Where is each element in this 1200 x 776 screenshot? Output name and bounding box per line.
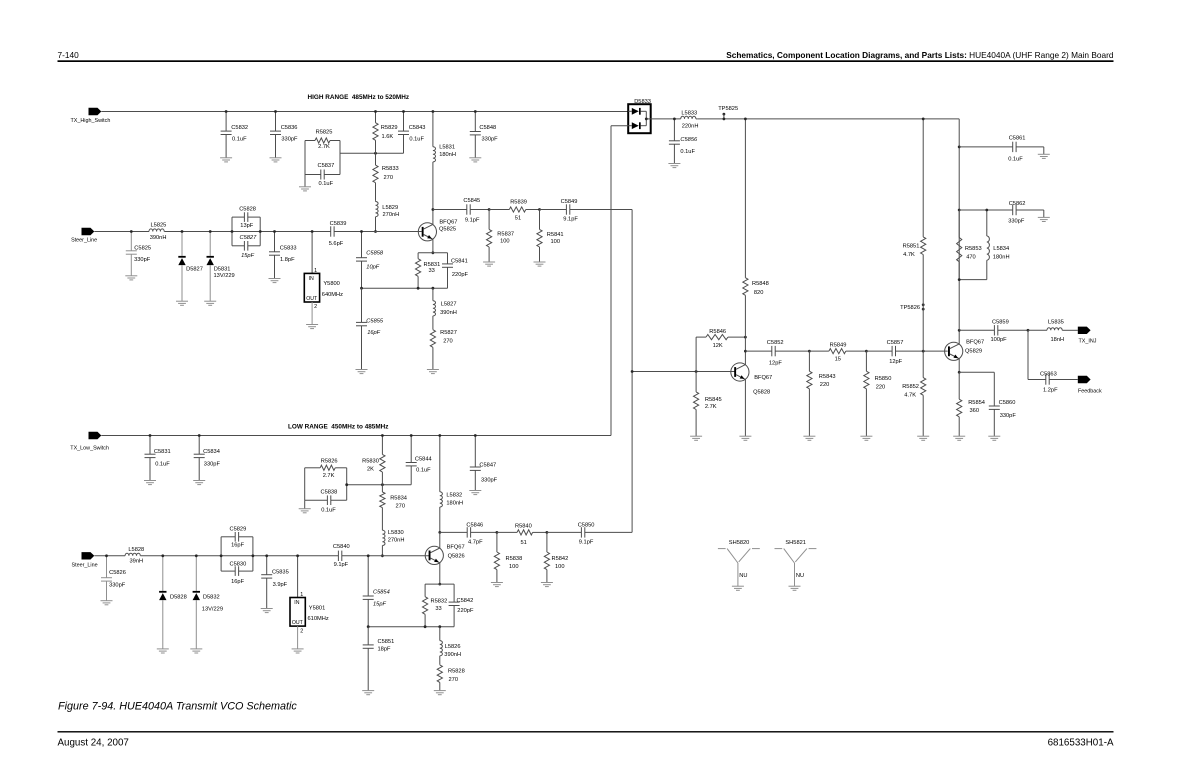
capacitor C5845 [463, 198, 489, 224]
capacitor C5837 [305, 163, 340, 187]
high range title [308, 94, 410, 101]
svg-text:1.6K: 1.6K [382, 134, 394, 140]
varactor D5828 [159, 556, 187, 649]
svg-text:Schematics, Component Location: Schematics, Component Location Diagrams,… [726, 50, 1114, 60]
node C5855 top [360, 287, 363, 290]
wire steer high right [334, 231, 422, 233]
wire Q5826 emitter [439, 563, 441, 584]
svg-text:R5843: R5843 [819, 374, 836, 380]
ground C5848 [469, 158, 481, 162]
ground C5834 [193, 481, 205, 485]
svg-text:R5846: R5846 [709, 329, 726, 335]
svg-text:220pF: 220pF [452, 272, 469, 278]
node R5852 base [922, 350, 925, 353]
node Q5829 emitter [958, 371, 961, 374]
svg-text:330pF: 330pF [109, 582, 126, 588]
capacitor C5829 [221, 527, 253, 556]
svg-text:610MHz: 610MHz [308, 616, 329, 622]
ground C5825 [125, 276, 137, 280]
svg-text:0.1uF: 0.1uF [319, 181, 334, 187]
svg-text:BFQ67: BFQ67 [447, 545, 465, 551]
resistor R5825 [305, 130, 340, 150]
resistor R5839 [489, 200, 539, 222]
ground C5861 [1038, 154, 1050, 158]
svg-text:C5826: C5826 [109, 570, 126, 576]
svg-text:L5832: L5832 [446, 493, 462, 499]
svg-text:Y5801: Y5801 [309, 605, 325, 611]
svg-text:270: 270 [384, 175, 394, 181]
inductor L5825 [149, 223, 166, 241]
svg-text:C5833: C5833 [280, 246, 297, 252]
node R5841 top [538, 208, 541, 211]
inductor L5828 [125, 547, 144, 565]
svg-text:R5828: R5828 [448, 669, 465, 675]
svg-text:330pF: 330pF [204, 462, 221, 468]
svg-text:R5852: R5852 [902, 384, 919, 390]
footer rule [58, 731, 1114, 732]
node C5847 rail [474, 434, 477, 437]
node C5831 rail [149, 434, 152, 437]
svg-text:Q5826: Q5826 [448, 553, 465, 559]
input flag Steer_Line low [72, 552, 98, 568]
svg-text:C5857: C5857 [887, 340, 904, 346]
wire bias box left [304, 141, 306, 187]
svg-text:2: 2 [300, 629, 303, 635]
wire D5833 low input [611, 126, 628, 436]
wire steer low right [342, 555, 429, 557]
svg-text:C5855: C5855 [366, 319, 384, 325]
svg-text:2.7K: 2.7K [705, 404, 717, 410]
svg-text:C5845: C5845 [463, 198, 480, 204]
svg-text:0.1uF: 0.1uF [409, 136, 424, 142]
svg-text:6816533H01-A: 6816533H01-A [1048, 737, 1114, 748]
node Q5826 emitter [438, 583, 441, 586]
wire Q5829 emitter [958, 359, 960, 373]
svg-text:C5856: C5856 [680, 137, 698, 143]
svg-text:9.1pF: 9.1pF [563, 216, 578, 222]
inductor L5834 [959, 210, 1009, 280]
svg-text:C5846: C5846 [466, 523, 483, 529]
node C5859 right [1027, 329, 1030, 332]
node C5843 rail [402, 110, 405, 113]
ground bias box high [299, 187, 311, 191]
svg-text:18nH: 18nH [1051, 337, 1065, 343]
svg-text:R5829: R5829 [381, 125, 398, 131]
transistor Q5825 [418, 219, 457, 241]
wire collector to C5846 [440, 531, 467, 533]
svg-text:4.7K: 4.7K [904, 393, 916, 399]
svg-text:C5832: C5832 [231, 125, 248, 131]
resistor R5854 [957, 372, 985, 436]
svg-text:180nH: 180nH [446, 501, 463, 507]
svg-text:Feedback: Feedback [1078, 388, 1102, 394]
resistor R5851 [903, 119, 926, 304]
svg-text:51: 51 [515, 216, 521, 222]
wire steer high mid [165, 231, 331, 233]
resistor R5834 [380, 485, 407, 530]
svg-text:180nH: 180nH [439, 152, 456, 158]
svg-text:Figure 7-94. HUE4040A Transmit: Figure 7-94. HUE4040A Transmit VCO Schem… [58, 700, 297, 712]
svg-text:100: 100 [555, 564, 565, 570]
wire base junction high [632, 371, 735, 373]
ground C5835 [261, 609, 273, 613]
output flag Feedback [1078, 376, 1102, 395]
capacitor C5851 [363, 627, 395, 691]
svg-text:C5830: C5830 [230, 561, 247, 567]
svg-text:D5832: D5832 [203, 594, 220, 600]
svg-text:TX_INJ: TX_INJ [1079, 338, 1097, 344]
node D5832 steer [195, 554, 198, 557]
svg-text:16pF: 16pF [231, 579, 244, 585]
node R5830 rail [381, 434, 384, 437]
node C5844 rail [410, 434, 413, 437]
capacitor C5859 [959, 319, 1028, 343]
resistor R5852 [902, 351, 926, 436]
capacitor C5825 [126, 232, 151, 276]
resistor R5849 [809, 343, 866, 363]
svg-text:R5825: R5825 [316, 130, 333, 136]
svg-text:R5850: R5850 [875, 376, 892, 382]
ground R5852 [917, 436, 929, 440]
svg-text:1: 1 [314, 268, 317, 274]
resistor R5832 [423, 584, 455, 627]
svg-text:LOW RANGE 450MHz to 485MHz: LOW RANGE 450MHz to 485MHz [288, 424, 389, 431]
svg-text:4.7pF: 4.7pF [468, 540, 483, 546]
svg-text:R5837: R5837 [497, 231, 514, 237]
wire rail buffer [651, 118, 681, 120]
capacitor C5828 [232, 207, 260, 232]
wire rail buffer right [697, 118, 959, 120]
svg-text:9.1pF: 9.1pF [334, 562, 349, 568]
svg-text:390nH: 390nH [440, 310, 457, 316]
svg-text:C5859: C5859 [992, 319, 1009, 325]
node R5830 bottom [381, 483, 384, 486]
svg-text:270: 270 [443, 339, 453, 345]
svg-text:270nH: 270nH [388, 537, 405, 543]
svg-text:360: 360 [970, 408, 980, 414]
svg-text:390nH: 390nH [444, 652, 461, 658]
input flag TX_Low_Switch [70, 432, 109, 452]
svg-text:BFQ67: BFQ67 [754, 375, 772, 381]
capacitor C5842 [449, 584, 474, 627]
svg-text:R5827: R5827 [440, 330, 457, 336]
node R5838 top [496, 531, 499, 534]
wire bias box low left [304, 468, 306, 509]
capacitor C5863 [1028, 371, 1078, 393]
resistor R5837 [487, 210, 515, 263]
test point TP5826 [900, 303, 925, 351]
node R5829 bottom [374, 152, 377, 155]
svg-text:0.1uF: 0.1uF [416, 468, 431, 474]
capacitor C5860 [959, 372, 1016, 436]
svg-text:5.6pF: 5.6pF [329, 241, 344, 247]
node C5851 top [367, 625, 370, 628]
svg-text:C5850: C5850 [578, 523, 595, 529]
svg-text:SH5820: SH5820 [729, 540, 750, 546]
capacitor C5830 [221, 556, 253, 585]
node D5827 steer [181, 230, 184, 233]
svg-text:16pF: 16pF [231, 543, 244, 549]
node C5858 steer [360, 230, 363, 233]
capacitor C5855 [356, 288, 384, 369]
svg-text:R5845: R5845 [705, 397, 722, 403]
resistor R5826 [305, 459, 347, 479]
svg-text:L5833: L5833 [681, 110, 697, 116]
svg-text:330pF: 330pF [482, 137, 499, 143]
svg-text:0.1uF: 0.1uF [232, 136, 247, 142]
svg-text:C5838: C5838 [321, 490, 338, 496]
svg-text:C5835: C5835 [272, 569, 289, 575]
node R5845 base [695, 370, 698, 373]
svg-text:3.9pF: 3.9pF [273, 582, 288, 588]
svg-text:L5830: L5830 [388, 530, 404, 536]
ground D5828 [157, 649, 169, 653]
low range title [288, 424, 389, 431]
varactor D5827 [178, 232, 203, 302]
node C5828 right [259, 230, 262, 233]
svg-text:220nH: 220nH [682, 123, 699, 129]
svg-text:7-140: 7-140 [58, 50, 80, 60]
wire bias box low right [346, 468, 348, 500]
svg-text:TX_High_Switch: TX_High_Switch [71, 118, 111, 124]
zener D5831 [207, 232, 235, 302]
node D5833 output [645, 118, 648, 121]
node L5829 steer [374, 230, 377, 233]
wire Q5825 emitter [432, 239, 434, 253]
svg-text:Q5825: Q5825 [439, 226, 456, 232]
capacitor C5849 [540, 199, 633, 222]
ground C5851 [362, 691, 374, 695]
node L5832 rail [438, 434, 441, 437]
ground C5856 [668, 164, 680, 168]
resistor R5829 [373, 112, 398, 154]
transistor Q5826 [425, 545, 464, 565]
resistor R5846 [696, 329, 745, 372]
input flag Steer_Line high [71, 228, 97, 244]
svg-text:C5842: C5842 [457, 598, 474, 604]
svg-text:L5827: L5827 [441, 302, 457, 308]
svg-text:C5858: C5858 [366, 251, 384, 257]
node Q5826 collector [438, 531, 441, 534]
node R5837 top [488, 208, 491, 211]
svg-text:C5863: C5863 [1040, 371, 1057, 377]
svg-text:R5849: R5849 [830, 343, 847, 349]
svg-text:BFQ67: BFQ67 [966, 340, 984, 346]
svg-text:470: 470 [966, 254, 976, 260]
svg-text:100pF: 100pF [991, 337, 1008, 343]
node C5832 rail [225, 110, 228, 113]
ground Y5800 [306, 325, 318, 329]
svg-text:R5841: R5841 [547, 232, 564, 238]
ground SH5821 [789, 586, 801, 590]
svg-text:C5829: C5829 [230, 527, 247, 533]
inductor L5835 [1028, 319, 1078, 343]
node C5835 steer [265, 554, 268, 557]
node C5861 tap [958, 146, 961, 149]
svg-text:SH5821: SH5821 [785, 540, 806, 546]
capacitor C5861 [959, 136, 1044, 163]
svg-text:33: 33 [429, 268, 435, 274]
diode switch D5833 [628, 99, 651, 133]
inductor L5832 [440, 436, 463, 533]
inductor L5829 [376, 200, 400, 231]
resistor R5838 [494, 532, 522, 582]
svg-text:C5844: C5844 [415, 457, 432, 463]
svg-text:12pF: 12pF [889, 359, 902, 365]
svg-text:9.1pF: 9.1pF [579, 540, 594, 546]
svg-text:R5840: R5840 [515, 524, 532, 530]
ground R5841 [534, 262, 546, 266]
footer date [58, 737, 129, 748]
node C5862 tap [958, 209, 961, 212]
svg-text:NU: NU [739, 573, 747, 579]
svg-text:C5831: C5831 [154, 449, 171, 455]
svg-text:330pF: 330pF [481, 478, 498, 484]
capacitor C5847 [470, 436, 498, 491]
svg-text:R5832: R5832 [431, 599, 448, 605]
wire Q5825 collector [432, 210, 434, 225]
svg-text:Steer_Line: Steer_Line [71, 238, 97, 244]
ground C5862 [1038, 217, 1050, 221]
svg-text:1.8pF: 1.8pF [280, 257, 295, 263]
footer part number [1048, 737, 1114, 748]
wire bias output high [340, 152, 404, 154]
svg-text:L5831: L5831 [439, 145, 455, 151]
node C5856 rail [673, 118, 676, 121]
resistor R5841 [537, 210, 564, 263]
node R5842 top [546, 531, 549, 534]
ground C5831 [144, 481, 156, 485]
svg-text:180nH: 180nH [993, 254, 1010, 260]
node C5828 left [231, 230, 234, 233]
svg-text:270: 270 [396, 504, 406, 510]
node emitter box low left [424, 625, 427, 628]
node C5825 steer [130, 230, 133, 233]
svg-text:100: 100 [500, 239, 510, 245]
svg-text:0.1uF: 0.1uF [680, 149, 695, 155]
capacitor C5826 [101, 556, 126, 601]
ground R5854 [953, 436, 965, 440]
ground R5843 [803, 436, 815, 440]
ground D5832 [190, 649, 202, 653]
svg-text:OUT: OUT [292, 620, 304, 626]
svg-text:C5828: C5828 [239, 207, 256, 213]
svg-text:R5851: R5851 [903, 243, 920, 249]
svg-text:OUT: OUT [306, 296, 318, 302]
ground R5837 [483, 262, 495, 266]
svg-text:D5833: D5833 [634, 99, 651, 105]
svg-text:13V/229: 13V/229 [214, 273, 235, 279]
svg-text:2.7K: 2.7K [323, 473, 335, 479]
svg-text:C5848: C5848 [479, 125, 496, 131]
wire emitter box bottom low [368, 626, 454, 628]
header title [726, 50, 1114, 60]
svg-text:D5827: D5827 [186, 267, 203, 273]
node R5851 rail [922, 118, 925, 121]
svg-text:9.1pF: 9.1pF [465, 218, 480, 224]
svg-text:2: 2 [314, 304, 317, 310]
inductor L5833 [681, 110, 699, 129]
ground C5847 [469, 491, 481, 495]
capacitor C5841 [442, 253, 469, 288]
svg-text:TX_Low_Switch: TX_Low_Switch [70, 446, 109, 452]
ground bias box low [299, 509, 311, 513]
svg-text:330pF: 330pF [1008, 218, 1025, 224]
svg-text:330pF: 330pF [134, 257, 151, 263]
ground C5855 [356, 370, 368, 374]
capacitor C5844 [406, 436, 432, 485]
svg-text:13pF: 13pF [240, 223, 253, 229]
ground C5826 [101, 601, 113, 605]
svg-text:0.1uF: 0.1uF [1008, 156, 1023, 162]
svg-text:R5834: R5834 [390, 496, 407, 502]
node Y5801 steer [296, 554, 299, 557]
svg-text:13V/229: 13V/229 [202, 606, 223, 612]
header rule [58, 60, 1114, 62]
node R5829 rail [374, 110, 377, 113]
capacitor C5843 [398, 112, 425, 154]
svg-text:1: 1 [300, 592, 303, 598]
svg-text:33: 33 [435, 606, 441, 612]
svg-text:15pF: 15pF [373, 601, 386, 607]
ground R5828 [434, 691, 446, 695]
inductor L5826 [440, 627, 461, 665]
ground R5842 [541, 583, 553, 587]
wire Q5828 emitter [744, 379, 746, 436]
ground C5860 [988, 436, 1000, 440]
node emitter box low centre [438, 625, 441, 628]
node L5834 top [985, 209, 988, 212]
svg-text:R5838: R5838 [506, 556, 523, 562]
capacitor C5854 [363, 556, 390, 627]
node bias output low [345, 483, 348, 486]
svg-text:Y5800: Y5800 [323, 281, 339, 287]
capacitor C5832 [221, 112, 248, 158]
svg-text:820: 820 [754, 290, 764, 296]
node Q5825 emitter [432, 251, 435, 254]
capacitor C5862 [959, 201, 1044, 225]
node D5831 steer [209, 230, 212, 233]
wire Q5829 collector [958, 330, 960, 344]
resistor R5848 [743, 119, 769, 337]
wire bias output low [347, 484, 412, 486]
svg-text:16pF: 16pF [367, 330, 380, 336]
node combined output [631, 370, 634, 373]
node C5836 rail [274, 110, 277, 113]
svg-text:39nH: 39nH [130, 558, 144, 564]
svg-text:Steer_Line: Steer_Line [72, 563, 98, 569]
svg-text:220: 220 [876, 385, 886, 391]
node C5833 steer [273, 230, 276, 233]
svg-text:1.2pF: 1.2pF [1043, 388, 1058, 394]
svg-text:TP5825: TP5825 [718, 106, 738, 112]
resistor R5850 [864, 351, 892, 436]
node C5826 steer [105, 554, 108, 557]
node Q5828 collector [744, 350, 747, 353]
wire Q5828 collector [744, 337, 746, 365]
svg-text:C5851: C5851 [378, 639, 395, 645]
ground R5827 [427, 370, 439, 374]
wire collector to C5845 [433, 209, 467, 211]
resistor R5853 [957, 210, 982, 280]
svg-text:2.7K: 2.7K [318, 144, 330, 150]
svg-text:18pF: 18pF [378, 647, 391, 653]
svg-text:C5847: C5847 [479, 463, 496, 469]
node R5846 right [744, 336, 747, 339]
svg-text:C5839: C5839 [330, 221, 347, 227]
node R5850 top [865, 350, 868, 353]
capacitor C5831 [145, 436, 171, 481]
